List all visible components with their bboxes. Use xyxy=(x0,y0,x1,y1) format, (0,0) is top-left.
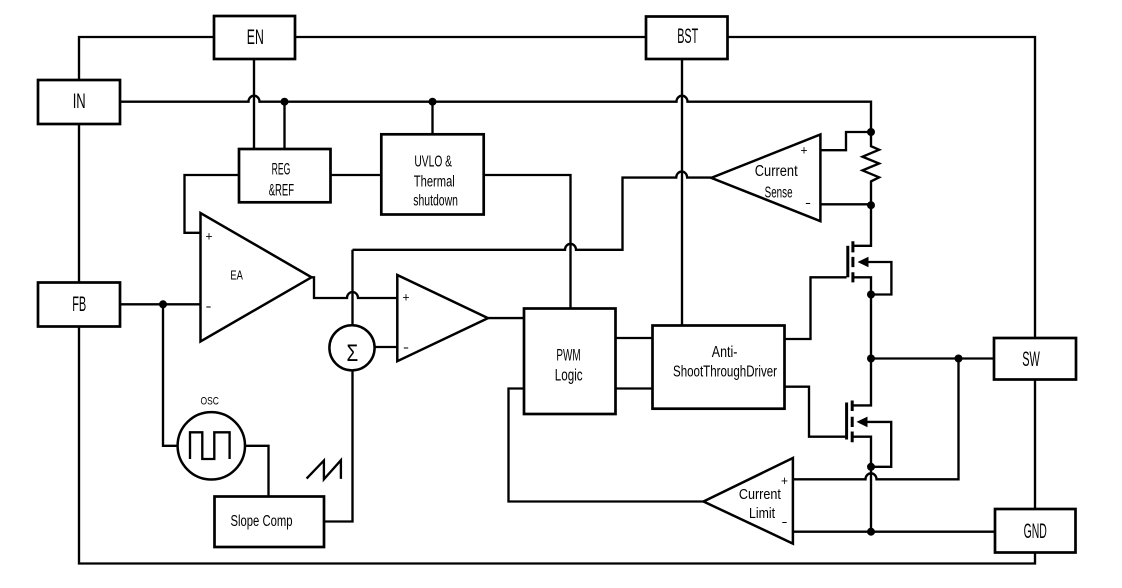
svg-text:Slope Comp: Slope Comp xyxy=(231,513,293,530)
node GND junction xyxy=(867,528,875,536)
transistor Q1 (high-side MOSFET) xyxy=(848,205,892,294)
block Slope Comp xyxy=(215,497,325,548)
block REG &REF xyxy=(239,149,331,202)
svg-text:&REF: &REF xyxy=(269,180,294,199)
svg-text:Current: Current xyxy=(755,163,798,180)
wire outer border (EN/BST top rail, left, bottom, right rails) xyxy=(79,37,1035,564)
sawtooth ramp symbol xyxy=(307,460,341,479)
svg-text:PWM: PWM xyxy=(556,345,580,364)
wire Anti-ShootThrough to Q2 gate xyxy=(785,387,846,437)
svg-text:Limit: Limit xyxy=(749,506,775,522)
svg-text:-: - xyxy=(206,299,212,314)
wire Current Sense output to summer top xyxy=(353,172,712,326)
svg-text:-: - xyxy=(805,195,811,210)
wire Q1 source to SW node xyxy=(870,295,872,359)
node Q2 source junction xyxy=(867,463,875,471)
wire Current Sense - input to resistor bottom xyxy=(821,203,872,205)
svg-text:Current: Current xyxy=(739,487,781,503)
svg-text:OSC: OSC xyxy=(201,396,219,408)
wire SW node to SW pin xyxy=(871,357,994,359)
node Q1 source junction xyxy=(867,291,875,299)
wire Current Limit - input to GND pin xyxy=(793,531,995,533)
wire PWM Logic to Anti-ShootThrough upper xyxy=(616,337,653,339)
svg-text:EA: EA xyxy=(230,267,243,282)
svg-text:-: - xyxy=(782,514,788,529)
svg-text:SW: SW xyxy=(1022,348,1040,371)
wire PWM Logic to Anti-ShootThrough lower xyxy=(616,387,653,389)
block PWM Logic xyxy=(524,309,616,415)
wire Current Limit + input to SW node xyxy=(793,359,959,480)
svg-text:-: - xyxy=(403,340,409,355)
transistor Q2 (low-side MOSFET) xyxy=(847,359,892,467)
svg-text:IN: IN xyxy=(73,90,86,113)
wire REG&REF to UVLO xyxy=(331,174,382,176)
svg-text:ShootThroughDriver: ShootThroughDriver xyxy=(673,364,777,381)
wire Anti-ShootThrough to Q1 gate xyxy=(785,277,847,339)
svg-text:+: + xyxy=(801,143,808,158)
wire FB node to OSC xyxy=(163,304,178,446)
svg-text:UVLO &: UVLO & xyxy=(414,153,452,170)
block Anti-ShootThrough Driver xyxy=(653,326,785,409)
svg-text:BST: BST xyxy=(677,25,698,48)
oscillator OSC xyxy=(178,396,245,480)
svg-text:shutdown: shutdown xyxy=(413,193,458,210)
wire UVLO output to PWM Logic top xyxy=(484,175,571,309)
summer sigma node xyxy=(329,325,374,370)
wire EN to REG&REF xyxy=(253,59,255,149)
wire Q2 source to GND rail xyxy=(870,467,872,532)
op-amp U2 (PWM comparator) xyxy=(397,275,488,361)
svg-text:EN: EN xyxy=(247,26,264,49)
svg-text:FB: FB xyxy=(72,293,86,316)
svg-text:Logic: Logic xyxy=(555,366,583,385)
svg-text:GND: GND xyxy=(1024,520,1047,543)
svg-text:Σ: Σ xyxy=(346,340,358,367)
wire OSC to Slope Comp xyxy=(245,446,269,497)
wire VIN tap to REG&REF xyxy=(283,102,285,149)
svg-text:+: + xyxy=(206,229,213,244)
wire Current Limit output to PWM Logic xyxy=(509,389,704,502)
wire VIN tap to UVLO xyxy=(431,102,433,135)
pin EN xyxy=(214,16,295,59)
pin SW xyxy=(994,338,1076,380)
resistor Rsense xyxy=(863,132,880,205)
wire Current Sense + input to resistor top xyxy=(821,132,872,150)
node resistor top junction xyxy=(867,128,875,136)
svg-text:+: + xyxy=(403,290,410,305)
svg-text:Anti-: Anti- xyxy=(712,344,738,361)
wire IN rail to sense resistor (net VIN) xyxy=(120,96,871,132)
wire EA output to comparator + input xyxy=(312,277,398,298)
op-amp EA (error amplifier) xyxy=(201,213,312,342)
wire comparator output to PWM Logic xyxy=(488,317,524,319)
wire FB input to EA - input xyxy=(120,303,201,305)
pin BST xyxy=(646,17,728,60)
pin IN xyxy=(38,80,120,124)
node FB junction xyxy=(159,300,167,308)
svg-text:Sense: Sense xyxy=(765,185,793,202)
node SW junction xyxy=(867,355,875,363)
svg-text:Thermal: Thermal xyxy=(414,174,455,191)
wire BST to Anti-ShootThrough top xyxy=(681,59,683,326)
wire REG&REF to EA + input xyxy=(185,175,240,233)
node SW-CurrentLimit junction xyxy=(955,355,963,363)
node VIN-UVLO junction xyxy=(429,98,437,106)
block UVLO & Thermal shutdown xyxy=(381,134,483,214)
svg-text:+: + xyxy=(781,473,788,488)
pin GND xyxy=(995,509,1076,553)
op-amp Current Sense xyxy=(711,135,820,222)
node resistor bottom junction xyxy=(867,201,875,209)
node VIN-REG junction xyxy=(281,98,289,106)
op-amp Current Limit xyxy=(704,458,793,544)
wire Slope Comp to summer bottom xyxy=(324,371,353,522)
wire summer output to comparator - input xyxy=(375,346,398,348)
pin FB xyxy=(38,283,120,327)
svg-text:REG: REG xyxy=(272,159,291,178)
